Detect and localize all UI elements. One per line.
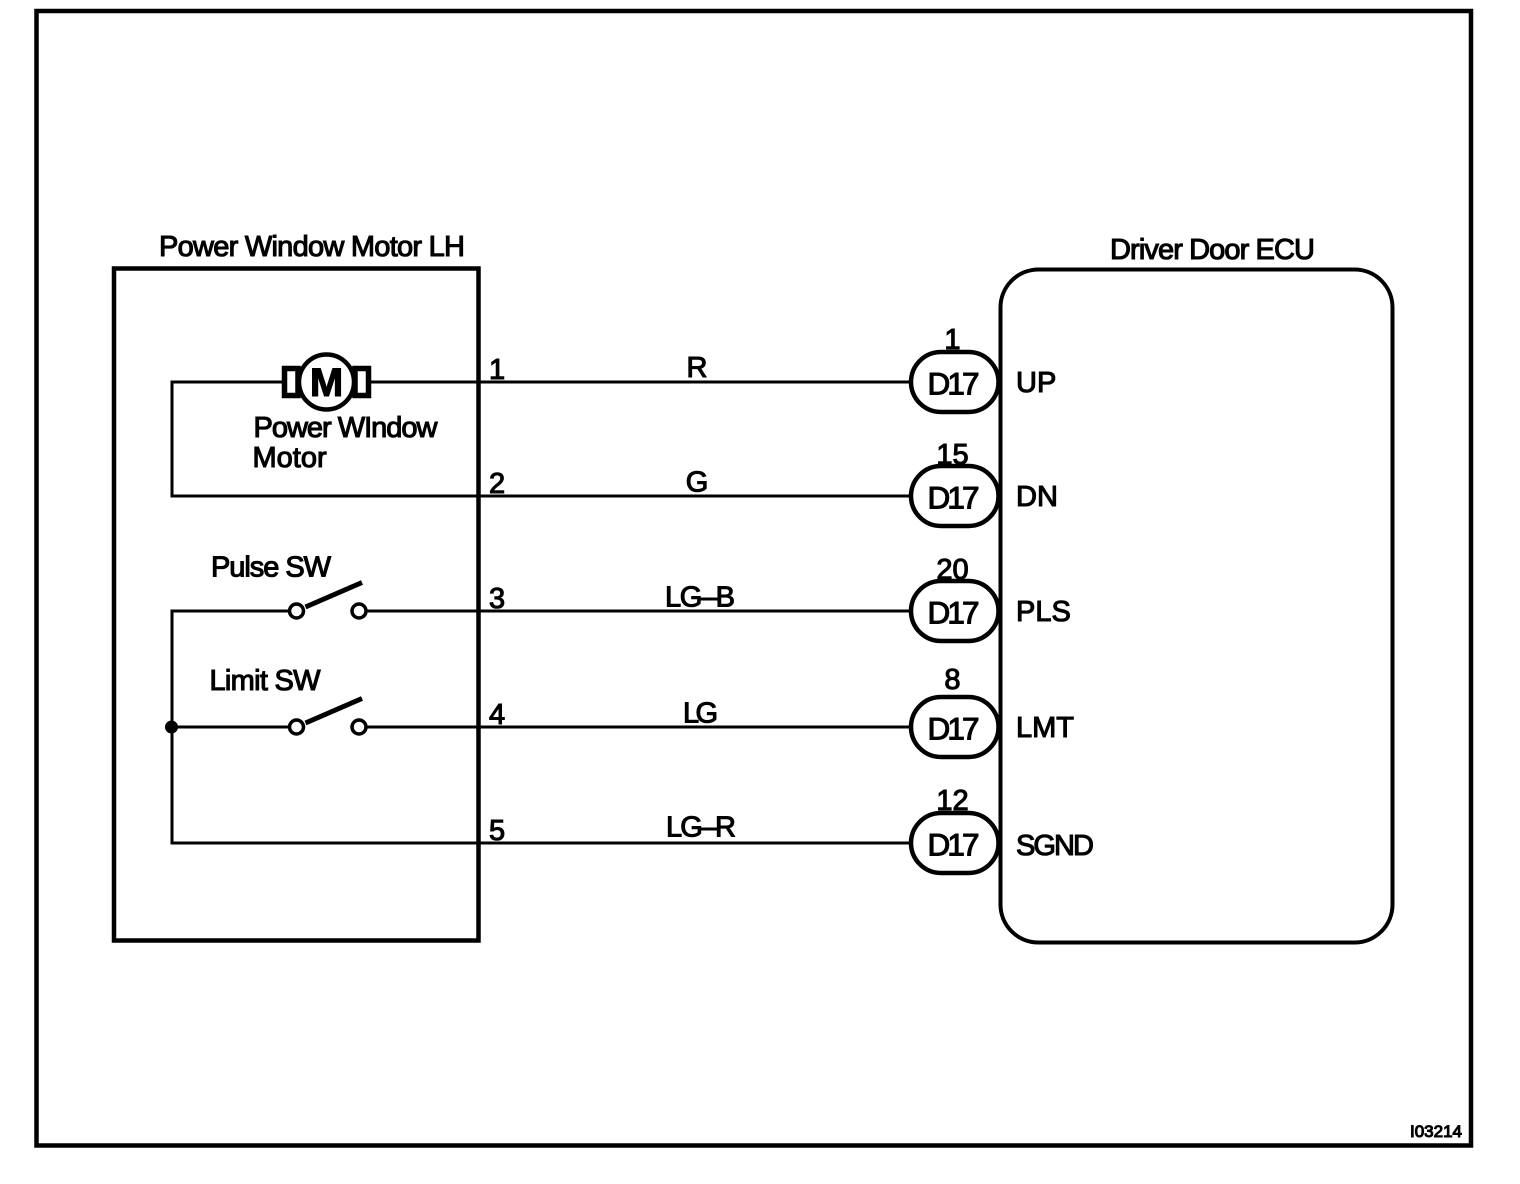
Power Window Motor LH box bbox=[114, 269, 479, 941]
pulse switch SW1 contact left bbox=[290, 604, 304, 618]
svg-text:D17: D17 bbox=[928, 711, 980, 747]
svg-text:G: G bbox=[686, 467, 709, 499]
wire bus to pulse switch bbox=[171, 610, 289, 613]
svg-text:Limit SW: Limit SW bbox=[210, 665, 322, 697]
svg-text:R: R bbox=[687, 352, 708, 384]
limit switch SW2 contact right bbox=[352, 720, 366, 734]
svg-text:D17: D17 bbox=[928, 366, 980, 402]
svg-text:DN: DN bbox=[1016, 481, 1058, 513]
svg-text:UP: UP bbox=[1016, 367, 1056, 399]
motor M1 brush terminal left bbox=[285, 369, 299, 396]
motor M1 brush terminal right bbox=[355, 369, 369, 396]
connector D17 pin20 oval bbox=[911, 581, 999, 641]
wire pin3 LG-B: pulse switch to D17 PLS bbox=[367, 610, 913, 613]
svg-text:LMT: LMT bbox=[1016, 712, 1074, 744]
svg-text:D17: D17 bbox=[928, 595, 980, 631]
wire bus to limit switch bbox=[171, 726, 289, 729]
Driver Door ECU box bbox=[1001, 270, 1393, 943]
svg-text:SGND: SGND bbox=[1016, 830, 1094, 862]
svg-text:Power Window Motor LH: Power Window Motor LH bbox=[159, 231, 465, 263]
svg-text:Power WIndow: Power WIndow bbox=[254, 412, 439, 444]
wire pin4 LG: limit switch to D17 LMT bbox=[367, 726, 913, 729]
wire pin1 R: motor right terminal to D17 UP bbox=[371, 381, 912, 384]
limit switch SW2 contact left bbox=[290, 720, 304, 734]
svg-text:D17: D17 bbox=[928, 827, 980, 863]
svg-text:LG–B: LG–B bbox=[665, 582, 735, 614]
limit switch SW2 blade bbox=[306, 699, 363, 724]
svg-text:1: 1 bbox=[489, 354, 505, 386]
svg-text:Motor: Motor bbox=[253, 442, 327, 474]
junction node on bus at limit switch bbox=[165, 721, 178, 734]
connector D17 pin12 oval bbox=[911, 813, 999, 873]
svg-text:15: 15 bbox=[936, 439, 968, 471]
wire pin5 LG-R: bus bottom to D17 SGND bbox=[171, 842, 913, 845]
svg-text:1: 1 bbox=[944, 324, 960, 356]
wire pin2 G: loop bottom to D17 DN bbox=[171, 495, 913, 498]
connector D17 pin1 oval bbox=[911, 352, 999, 412]
wire motor left to corner bbox=[171, 381, 284, 384]
svg-text:M: M bbox=[310, 361, 343, 405]
svg-text:LG–R: LG–R bbox=[666, 812, 736, 844]
svg-text:I03214: I03214 bbox=[1410, 1122, 1462, 1141]
svg-text:5: 5 bbox=[489, 815, 505, 847]
motor M1 body circle bbox=[299, 355, 354, 410]
pulse switch SW1 blade bbox=[306, 583, 363, 608]
svg-text:2: 2 bbox=[489, 468, 505, 500]
svg-text:20: 20 bbox=[936, 554, 968, 586]
svg-text:PLS: PLS bbox=[1016, 596, 1071, 628]
svg-text:3: 3 bbox=[489, 583, 505, 615]
connector D17 pin8 oval bbox=[911, 697, 999, 757]
svg-text:Pulse SW: Pulse SW bbox=[211, 552, 332, 584]
wire motor loop vertical bbox=[171, 381, 174, 498]
svg-text:D17: D17 bbox=[928, 480, 980, 516]
svg-text:4: 4 bbox=[489, 699, 505, 731]
svg-text:12: 12 bbox=[936, 785, 968, 817]
pulse switch SW1 contact right bbox=[352, 604, 366, 618]
connector D17 pin15 oval bbox=[911, 466, 999, 526]
wire switch bus vertical bbox=[171, 610, 174, 845]
svg-text:Driver Door ECU: Driver Door ECU bbox=[1110, 234, 1315, 266]
svg-text:8: 8 bbox=[944, 664, 960, 696]
svg-text:LG: LG bbox=[683, 698, 718, 730]
